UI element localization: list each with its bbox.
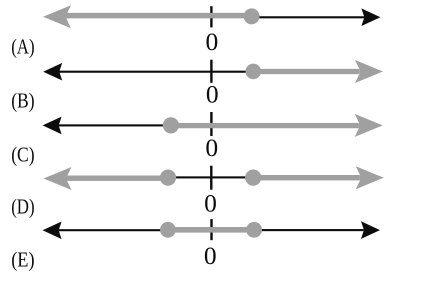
svg-text:0: 0 [204,189,217,218]
svg-text:0: 0 [204,241,217,270]
svg-text:(A): (A) [11,34,34,58]
svg-text:0: 0 [206,80,219,109]
svg-text:0: 0 [205,133,218,162]
svg-text:(B): (B) [11,89,34,113]
svg-text:(E): (E) [11,247,34,271]
svg-text:(C): (C) [11,142,34,166]
svg-text:(D): (D) [11,195,34,219]
svg-text:0: 0 [206,27,219,56]
